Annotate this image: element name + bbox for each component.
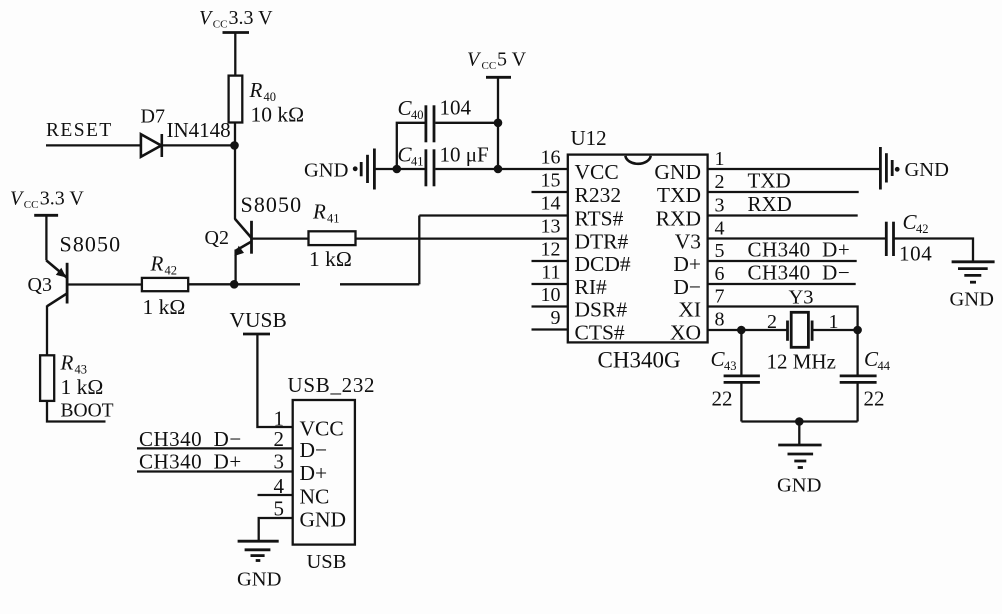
node XO junction <box>737 326 746 335</box>
svg-text:R: R <box>312 200 326 224</box>
wire C43 to rail <box>740 382 742 421</box>
wire chip pin 1 to ground <box>708 168 880 170</box>
svg-text:RTS#: RTS# <box>575 207 624 231</box>
node XI junction <box>853 326 862 335</box>
svg-text:22: 22 <box>864 387 885 411</box>
chip left pin labels <box>575 160 631 345</box>
wire Q3 collector down <box>46 306 48 356</box>
wire to chip pin 14 <box>419 214 568 216</box>
svg-text:XI: XI <box>678 298 701 322</box>
svg-text:GND: GND <box>777 475 821 497</box>
svg-text:1 kΩ: 1 kΩ <box>143 295 186 319</box>
chip right pin labels <box>654 160 701 345</box>
ground (left of C41) <box>304 149 374 190</box>
svg-text:GND: GND <box>950 289 994 311</box>
svg-text:2: 2 <box>767 311 777 333</box>
svg-text:USB_232: USB_232 <box>288 373 376 397</box>
svg-text:CH340 D+: CH340 D+ <box>139 450 242 474</box>
svg-text:CC: CC <box>482 60 497 72</box>
svg-text:RI#: RI# <box>575 275 608 299</box>
ground (top right) <box>880 147 949 190</box>
svg-text:3: 3 <box>715 195 725 217</box>
svg-text:NC: NC <box>300 485 330 509</box>
svg-text:IN4148: IN4148 <box>167 118 231 142</box>
wire chip pin 10 stub <box>532 305 568 307</box>
svg-text:15: 15 <box>541 170 561 192</box>
svg-text:GND: GND <box>304 160 348 182</box>
wire Q2 base to R41 <box>252 237 309 239</box>
capacitor C41 10uF <box>398 143 489 187</box>
svg-text:3: 3 <box>274 450 285 474</box>
svg-text:RXD: RXD <box>748 192 792 216</box>
svg-text:12 MHz: 12 MHz <box>767 350 836 374</box>
resistor R42 <box>142 252 188 320</box>
svg-text:D+: D+ <box>673 252 701 276</box>
svg-text:DCD#: DCD# <box>575 252 631 276</box>
svg-text:VCC: VCC <box>575 160 619 184</box>
transistor Q3 S8050 <box>28 232 122 307</box>
svg-text:GND: GND <box>300 508 347 532</box>
wire chip pin 3 RXD <box>708 192 858 216</box>
node GND branch junction <box>393 165 402 174</box>
wire chip pin 11 stub <box>532 283 568 285</box>
svg-text:D7: D7 <box>141 106 165 128</box>
wire RESET to D7 <box>46 144 142 146</box>
svg-text:GND: GND <box>905 159 949 181</box>
svg-text:6: 6 <box>715 263 725 285</box>
wire USB pin 4 stub <box>258 494 293 496</box>
svg-text:CH340 D−: CH340 D− <box>748 261 851 285</box>
svg-text:1 kΩ: 1 kΩ <box>61 375 104 399</box>
svg-text:2: 2 <box>715 171 725 193</box>
svg-text:CH340G: CH340G <box>598 348 681 373</box>
svg-text:R: R <box>150 252 164 276</box>
ground (crystal) <box>777 445 822 497</box>
svg-text:10 μF: 10 μF <box>440 143 489 167</box>
svg-text:TXD: TXD <box>657 183 701 207</box>
node rail junction <box>795 417 804 426</box>
capacitor C43 22 <box>711 347 760 411</box>
wire C44 to rail <box>856 382 858 421</box>
wire C42 to ground <box>894 239 974 262</box>
svg-text:CC: CC <box>24 199 39 211</box>
svg-text:GND: GND <box>654 160 701 184</box>
wire segment to pin14 riser <box>340 283 419 285</box>
wire C40 to VCC5 drop <box>435 122 498 124</box>
wire chip pin 12 stub <box>532 260 568 262</box>
svg-text:R: R <box>249 78 263 102</box>
wire chip pin 15 stub <box>532 191 568 193</box>
resistor R41 <box>309 200 356 272</box>
wire rail to ground <box>798 422 800 446</box>
wire C41 to VCC5 node <box>435 168 498 170</box>
svg-text:9: 9 <box>551 307 561 329</box>
svg-text:Q2: Q2 <box>205 227 229 249</box>
transistor Q2 S8050 <box>205 192 303 256</box>
node junction diode/R40 <box>230 141 239 150</box>
resistor R40 <box>229 76 305 127</box>
svg-text:10: 10 <box>541 284 561 306</box>
wire R42 to junction <box>188 283 234 285</box>
svg-text:TXD: TXD <box>748 169 791 193</box>
wire VCC to Q3 emitter <box>45 215 47 260</box>
svg-text:5 V: 5 V <box>497 48 527 70</box>
svg-text:7: 7 <box>715 286 725 308</box>
connector inner pin labels <box>300 417 347 532</box>
wire D7 to junction <box>163 144 235 146</box>
svg-text:4: 4 <box>715 218 725 240</box>
wire C40 branch up <box>397 123 425 169</box>
svg-text:R232: R232 <box>575 183 622 207</box>
svg-text:RXD: RXD <box>656 207 701 231</box>
wire node to C43 <box>740 330 742 376</box>
svg-text:16: 16 <box>541 147 561 169</box>
node junction Q2 emitter <box>230 280 239 289</box>
svg-text:Q3: Q3 <box>28 274 52 296</box>
power VUSB <box>230 308 287 334</box>
connector pin numbers <box>274 407 285 521</box>
node C40 junction <box>494 119 503 128</box>
capacitor C42 104 <box>886 210 932 266</box>
connector USB_232 <box>288 373 376 573</box>
svg-text:104: 104 <box>899 242 932 266</box>
wire chip pin 4 to C42 <box>708 237 887 239</box>
wire USB pin 2 <box>137 447 293 449</box>
wire USB pin 3 <box>137 470 293 472</box>
svg-text:10 kΩ: 10 kΩ <box>251 103 305 127</box>
svg-text:CH340 D+: CH340 D+ <box>748 238 851 262</box>
svg-text:14: 14 <box>541 193 561 215</box>
svg-text:V3: V3 <box>675 230 701 254</box>
wire ground to node <box>376 168 397 170</box>
wire R43 to BOOT <box>47 401 106 422</box>
wire node to C41 <box>397 168 425 170</box>
svg-text:11: 11 <box>541 262 560 284</box>
op chip U12 CH340G <box>568 126 708 373</box>
wire Q2 emitter down <box>234 250 236 285</box>
svg-text:12: 12 <box>541 239 561 261</box>
svg-text:3.3 V: 3.3 V <box>40 187 85 209</box>
svg-text:44: 44 <box>878 359 891 373</box>
wire riser up <box>418 216 420 285</box>
wire chip pin 8 XO <box>708 329 742 331</box>
svg-text:40: 40 <box>411 108 424 122</box>
wire chip pin 6 CH340 D- <box>708 261 856 285</box>
svg-text:13: 13 <box>541 216 561 238</box>
svg-text:DSR#: DSR# <box>575 298 628 322</box>
svg-text:3.3 V: 3.3 V <box>229 7 274 29</box>
svg-text:Y3: Y3 <box>789 287 814 309</box>
svg-text:D−: D− <box>300 438 328 462</box>
svg-text:1 kΩ: 1 kΩ <box>309 247 352 271</box>
svg-text:22: 22 <box>712 387 733 411</box>
ground (USB) <box>237 541 281 590</box>
diode D7 IN4148 <box>141 106 231 158</box>
wire to chip pin 16 <box>498 168 568 170</box>
wire VCC5 drop <box>497 77 499 169</box>
svg-text:GND: GND <box>237 569 281 591</box>
wire USB pin 5 to ground <box>259 518 293 541</box>
wire chip pin 9 stub <box>532 328 568 330</box>
svg-text:DTR#: DTR# <box>575 230 629 254</box>
wire crystal pin 1 to node <box>811 329 857 331</box>
svg-text:104: 104 <box>440 96 472 120</box>
wire R41 to chip pin 13 <box>356 237 568 239</box>
svg-text:CC: CC <box>213 19 228 31</box>
power VCC 3.3V (left) <box>10 187 84 215</box>
svg-text:S8050: S8050 <box>241 192 303 217</box>
chip left pin numbers <box>541 147 561 330</box>
chip right pin numbers <box>715 148 725 331</box>
wire Q3 base to R42 <box>67 283 142 285</box>
svg-text:1: 1 <box>715 148 725 170</box>
wire chip pin 5 CH340 D+ <box>708 238 857 262</box>
capacitor C40 104 <box>398 96 472 143</box>
svg-text:USB: USB <box>307 551 347 573</box>
wire ground rail <box>741 420 857 422</box>
svg-text:D+: D+ <box>300 461 328 485</box>
node C41 junction <box>494 165 503 174</box>
resistor R43 <box>40 351 103 401</box>
svg-text:41: 41 <box>327 212 340 226</box>
wire VUSB to USB pin 1 <box>257 334 292 427</box>
power VCC 3.3V (top) <box>199 7 273 33</box>
svg-text:RESET: RESET <box>46 120 113 141</box>
svg-text:41: 41 <box>411 155 424 169</box>
capacitor C44 22 <box>840 347 891 411</box>
svg-text:U12: U12 <box>571 126 607 150</box>
svg-text:CTS#: CTS# <box>575 321 625 345</box>
crystal Y3 12MHz <box>767 287 839 374</box>
wire VCC3.3 to R40 <box>234 33 236 77</box>
svg-text:XO: XO <box>670 321 701 345</box>
svg-text:5: 5 <box>715 240 725 262</box>
svg-text:8: 8 <box>715 309 725 331</box>
wire node to C44 <box>856 330 858 376</box>
wire chip pin 7 XI to crystal <box>708 307 858 331</box>
svg-text:VCC: VCC <box>300 417 344 441</box>
wire R40 to Q2 collector <box>234 123 236 220</box>
svg-text:VUSB: VUSB <box>230 308 287 332</box>
svg-text:D−: D− <box>673 275 701 299</box>
svg-text:R: R <box>60 351 74 375</box>
svg-text:S8050: S8050 <box>60 232 122 257</box>
wire chip pin 2 TXD <box>708 169 859 193</box>
svg-text:BOOT: BOOT <box>61 401 114 422</box>
svg-text:42: 42 <box>916 222 929 236</box>
power VCC 5V <box>467 48 527 77</box>
ground (C42) <box>950 262 995 311</box>
svg-text:43: 43 <box>724 359 737 373</box>
wire junction right segment <box>234 283 300 285</box>
svg-text:42: 42 <box>165 264 178 278</box>
wire XO to crystal pin 2 <box>741 329 788 331</box>
